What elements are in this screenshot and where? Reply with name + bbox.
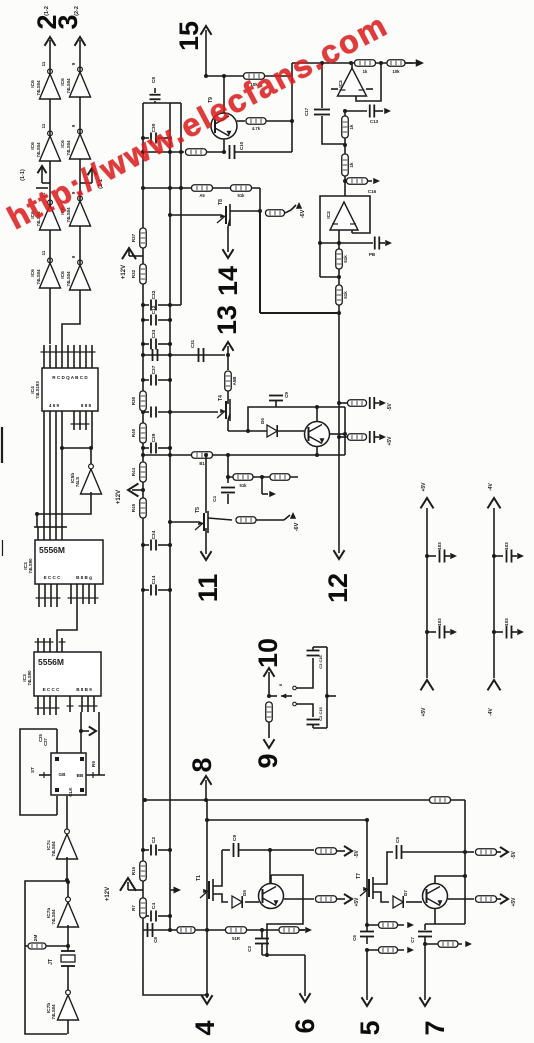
svg-text:R44: R44 (131, 467, 136, 476)
wire T7 feed (366, 820, 368, 925)
op-amp IC2b (330, 202, 358, 230)
svg-text:+5V: +5V (421, 707, 427, 717)
capacitor C25 (370, 431, 375, 443)
svg-text:R32: R32 (131, 269, 136, 278)
arrow +5V t7 (500, 894, 508, 904)
arrow 13 (223, 342, 234, 351)
junction rail (141, 318, 145, 322)
IC U1 bottom pin short (73, 411, 75, 430)
junction osc loop (66, 880, 70, 884)
wire r20 out (337, 898, 341, 900)
svg-text:C33: C33 (151, 329, 157, 338)
svg-text:5556M: 5556M (38, 657, 64, 667)
svg-text:4.7k: 4.7k (252, 126, 261, 131)
junction 944 (423, 942, 427, 946)
junction clk branch (79, 729, 83, 733)
wire collector res (237, 120, 245, 122)
wire rail stub b (512, 555, 517, 557)
resistor R15c (279, 927, 299, 934)
wire rail (426, 508, 428, 678)
wire row2 seg (79, 290, 81, 318)
wire loop 4 (143, 968, 207, 995)
wire line 111 (345, 110, 367, 112)
junction railA 355 (141, 353, 145, 357)
IC U1 top pin (91, 345, 93, 368)
rail A (142, 103, 144, 968)
pin tick (67, 705, 74, 707)
wire rail top bar (143, 102, 170, 104)
IC U3 top pin (37, 638, 39, 652)
wire box top (248, 407, 345, 431)
junction box 243 (318, 241, 322, 245)
resistor R13 (348, 400, 367, 407)
arrow 8 (201, 776, 212, 785)
IC U1 top pin (61, 345, 63, 368)
svg-text:1k: 1k (349, 124, 354, 130)
op-amp IC2a (338, 68, 367, 96)
arrow rail gnd (517, 553, 524, 559)
wire IC7b in (67, 1020, 69, 1034)
wire c3 b (261, 944, 263, 955)
svg-text:ST: ST (30, 767, 35, 773)
contact circle b (293, 702, 297, 706)
junction rail (168, 848, 172, 852)
inverter IC6 row1 #4 (40, 258, 61, 288)
resistor R28 (225, 371, 232, 391)
svg-text:B1: B1 (199, 461, 205, 466)
svg-text:C37: C37 (151, 365, 157, 374)
svg-text:+12V: +12V (105, 887, 111, 901)
capacitor C4 (143, 915, 149, 917)
wire line A (292, 62, 413, 64)
junction 477 (226, 475, 230, 479)
IC U3 top pin (49, 638, 51, 652)
IC U3 bottom pin (69, 696, 71, 712)
arrow gnd c18 (385, 240, 392, 246)
junction 15 (204, 74, 208, 78)
scan streak left (1, 427, 3, 463)
junction bus2 (205, 818, 209, 822)
svg-text:C3 C16: C3 C16 (318, 654, 323, 668)
junction 925 (365, 923, 369, 927)
wire 6 shaft (304, 955, 306, 990)
svg-text:8: 8 (187, 757, 217, 772)
IC U3 top pin (56, 638, 58, 652)
svg-text:74LS90: 74LS90 (28, 558, 33, 574)
junction rail (141, 914, 145, 918)
inverter IC6 row2 #3 (70, 196, 91, 226)
wire d5 out (245, 901, 259, 903)
resistor R42 (476, 896, 497, 903)
junction V3 top (343, 109, 347, 113)
resistor R32 (140, 264, 147, 284)
svg-text:C5: C5 (395, 837, 401, 843)
inverter IC7b (58, 990, 79, 1020)
svg-text:C27: C27 (43, 737, 48, 745)
junction V1 mid (290, 119, 294, 123)
junction rail (141, 446, 145, 450)
wire q2 top (270, 875, 272, 883)
svg-text:C10: C10 (239, 141, 244, 150)
junction rail (168, 303, 172, 307)
svg-text:11: 11 (41, 61, 46, 66)
resistor R11 (336, 249, 343, 269)
pin tick (53, 351, 60, 353)
wire r35 out (256, 519, 284, 521)
wire 4 shaft (206, 930, 208, 990)
arrow output 2 (45, 37, 56, 46)
wire 15 shaft (205, 40, 207, 76)
wire row2 seg (79, 159, 81, 201)
capacitor C10 (230, 145, 235, 159)
junction rail (141, 848, 145, 852)
capacitor C39 (143, 447, 149, 449)
svg-text:+12V: +12V (121, 265, 127, 279)
IC U1 top pin (43, 345, 45, 368)
wire x425 (424, 924, 426, 930)
svg-text:9: 9 (71, 255, 76, 258)
IC U1 top pin (73, 345, 75, 368)
transistor T8 (217, 204, 230, 226)
junction base t2 (268, 900, 272, 904)
capacitor C14 (143, 589, 149, 591)
wire T7 d (373, 852, 393, 884)
junction E (60, 446, 64, 450)
IC U3 body (34, 652, 101, 696)
junction bus1 8 (204, 798, 208, 802)
svg-text:IC2: IC2 (338, 80, 344, 88)
junction q3 top (315, 405, 319, 409)
arrow gnd 494 (269, 491, 276, 497)
junction rail (168, 588, 172, 592)
resistor R36 (379, 922, 398, 929)
IC U4 pad (80, 757, 84, 761)
svg-text:T5: T5 (195, 507, 201, 513)
pin tick (71, 351, 78, 353)
capacitor C6 (360, 932, 374, 937)
wire line B mid (207, 151, 226, 153)
junction rail (168, 543, 172, 547)
svg-text:74LS04: 74LS04 (51, 1004, 56, 1020)
svg-text:74LS193: 74LS193 (35, 381, 40, 399)
wire U4 bottom pin (66, 796, 68, 832)
resistor R44 (140, 462, 147, 482)
wire 9-10 stub (269, 695, 277, 697)
IC U4 pad (55, 788, 59, 792)
svg-text:9: 9 (71, 62, 76, 65)
wire line 944 (425, 943, 462, 945)
wire q3 bottom (316, 446, 318, 455)
arrow output 3 (75, 37, 86, 46)
junction x181 B (179, 150, 183, 154)
svg-text:C3: C3 (247, 946, 252, 952)
wire base (223, 76, 225, 113)
IC U2 bottom pin (94, 584, 96, 604)
wire line 930b (250, 929, 305, 931)
arrow 6 (300, 993, 311, 1002)
wire U2 to U3 (57, 584, 77, 638)
capacitor C12 (143, 319, 149, 321)
junction A2 (349, 61, 353, 65)
junction +12V mid2 (141, 488, 145, 492)
wire c13 out (375, 110, 383, 112)
wire T6 bottom (228, 414, 230, 420)
wire row2 seg (79, 226, 81, 265)
wire lineC down (259, 188, 261, 211)
wire row1 seg (49, 161, 51, 205)
pin tick (71, 423, 78, 425)
svg-text:74LS04: 74LS04 (51, 841, 56, 857)
junction t5 455 (204, 453, 208, 457)
junction xtal top (66, 944, 70, 948)
wire row2 output (79, 40, 81, 72)
resistor R35 (236, 517, 256, 524)
IC U4 pad (55, 757, 59, 761)
capacitor C34 (143, 544, 149, 546)
junction railA 455 (141, 453, 145, 457)
junction x181 (179, 186, 183, 190)
junction 850 (268, 848, 272, 852)
arrow 10 (264, 668, 275, 677)
svg-text:74LS90: 74LS90 (27, 670, 32, 686)
junction rail (168, 378, 172, 382)
arrow tap (1-1) (41, 168, 43, 183)
svg-text:PB: PB (369, 252, 376, 257)
wire T5 gate (170, 521, 198, 523)
arrow rail gnd (450, 629, 457, 635)
capacitor C32 (143, 304, 149, 306)
svg-text:1k: 1k (363, 69, 368, 74)
wire R osc left (25, 945, 28, 947)
wire cap line 850 (222, 849, 230, 851)
junction 477b (260, 475, 264, 479)
wire T1 s (213, 894, 228, 902)
wire xtal to IC7b (67, 966, 69, 991)
power arrow +12V mid2 (132, 489, 143, 491)
junction rail stub (492, 554, 496, 558)
svg-text:R9: R9 (91, 761, 96, 767)
wire q2 box (267, 875, 303, 955)
capacitor C18 (375, 237, 380, 250)
wire clk branch (81, 730, 89, 732)
junction 4 loop (205, 993, 209, 997)
pin tick (74, 597, 81, 599)
IC U1 top pin (49, 345, 51, 368)
IC U3 bottom pin (49, 696, 51, 715)
svg-text:C8: C8 (153, 937, 158, 943)
arrow output 15 (201, 26, 212, 35)
wire heavy down (259, 211, 261, 313)
transistor Q4 (423, 884, 448, 909)
wire r28 to T6 (227, 391, 229, 404)
bus tick (47, 526, 53, 528)
resistor R18b (266, 702, 273, 722)
diode D7 (393, 896, 403, 908)
junction A1 (320, 61, 324, 65)
svg-text:10k: 10k (393, 69, 401, 74)
svg-text:E C C C: E C C C (44, 575, 62, 580)
svg-text:10: 10 (253, 638, 283, 668)
svg-text:C8: C8 (151, 77, 157, 83)
svg-text:C12: C12 (151, 305, 157, 314)
svg-text:+12V: +12V (116, 490, 122, 504)
resistor R24 (186, 149, 207, 156)
resistor R14 (348, 434, 367, 441)
wire T5 down (205, 528, 207, 546)
arrow trim (281, 694, 286, 699)
wire bus link (206, 800, 208, 820)
power arrow top rail (488, 498, 501, 508)
wire line76 (206, 75, 292, 77)
arrow tap (2-1) (91, 170, 93, 183)
inverter IC6 row1 #2 (40, 131, 61, 161)
IC U3 bottom pin (55, 696, 57, 715)
pin tick (79, 705, 86, 707)
svg-text:51k: 51k (240, 483, 248, 488)
wire node E (62, 447, 92, 449)
inverter IC7c (57, 829, 78, 859)
capacitor C33 (418, 932, 432, 937)
wire d7 out (406, 901, 422, 903)
svg-text:C17: C17 (304, 107, 309, 116)
junction 950 (365, 948, 369, 952)
wire V3 gap3 (344, 176, 346, 196)
wire trim right (326, 647, 328, 728)
svg-text:R37: R37 (131, 233, 136, 242)
wire cap line 355 (143, 354, 225, 356)
resistor R15a (177, 927, 195, 934)
svg-text:-5V: -5V (387, 402, 393, 410)
wire q3 top (316, 407, 318, 421)
junction rail (168, 410, 172, 414)
resistor R26 (231, 185, 252, 192)
junction railA 152 (141, 150, 145, 154)
IC U1 bottom pins long (43, 411, 45, 527)
svg-text:R C D Q A B C D: R C D Q A B C D (52, 375, 88, 380)
resistor R34 (270, 474, 290, 481)
svg-text:(2-2: (2-2 (74, 6, 80, 16)
wire U4 right link (98, 712, 100, 775)
wire q4 out (448, 898, 474, 900)
arrow rail gnd (517, 629, 524, 635)
svg-text:2M: 2M (33, 935, 39, 942)
wire box right (344, 407, 346, 455)
resistor R17 (430, 797, 451, 804)
svg-text:74LS04: 74LS04 (66, 140, 71, 156)
wire V3 gap2 (344, 138, 346, 154)
svg-text:(1-1): (1-1) (20, 169, 26, 181)
arrow -6V t8 (291, 205, 296, 210)
arrow -5V 12a (379, 400, 386, 406)
wire U4 loop (20, 729, 57, 815)
svg-text:BB: BB (77, 773, 84, 778)
resistor R45 (140, 498, 147, 518)
wire oa1 tick left (331, 88, 338, 90)
wire trim out (327, 695, 336, 697)
IC U1 top pin (79, 345, 81, 368)
wire rail stub (427, 631, 436, 633)
wire bus1 corner (464, 800, 466, 924)
svg-text:D6: D6 (260, 418, 265, 424)
svg-text:C16: C16 (368, 189, 377, 194)
IC U3 bottom pin (81, 696, 83, 712)
junction railA 188 (141, 186, 145, 190)
wire diode line (228, 430, 304, 432)
transistor Q3 (305, 422, 330, 447)
wire stub2 link (339, 436, 348, 438)
wire stub1 link (339, 402, 348, 404)
svg-text:D7: D7 (403, 890, 408, 896)
svg-text:C4: C4 (212, 496, 217, 502)
junction t7 feed (365, 818, 369, 822)
svg-text:R45: R45 (131, 503, 136, 512)
wire rail stub (494, 631, 503, 633)
IC U3 top pin (43, 638, 45, 652)
svg-text:C34: C34 (151, 530, 157, 539)
svg-text:-6V: -6V (294, 522, 300, 531)
junction V3 low (343, 179, 347, 183)
resistor R41 (476, 849, 497, 856)
wire q2 out (284, 898, 314, 900)
pin tick (41, 641, 48, 643)
capacitor C37 (143, 379, 149, 381)
IC U3 top pin (61, 638, 63, 652)
capacitor C2 (143, 849, 149, 851)
wire IC7a out (67, 880, 69, 897)
arrow gnd 950 (407, 947, 414, 953)
wire T7 s (373, 892, 389, 902)
wire tap (1-1) (42, 182, 50, 184)
arrow gnd 944 (465, 941, 472, 947)
bus tick (35, 526, 41, 528)
svg-text:51k: 51k (343, 255, 348, 263)
svg-text:11: 11 (41, 123, 46, 128)
svg-text:7: 7 (420, 1020, 450, 1035)
IC U2 top pin (37, 527, 39, 540)
pin tick (59, 351, 66, 353)
svg-text:103: 103 (504, 542, 509, 550)
junction fb (337, 275, 341, 279)
wire v4 low (338, 313, 340, 545)
power arrow +12V osc (128, 889, 143, 891)
resistor R43 (438, 941, 458, 948)
pin tick (77, 351, 84, 353)
pin tick (42, 597, 49, 599)
arrow gnd c13 (384, 108, 391, 114)
wire buffer out (90, 448, 92, 467)
wire 9 shaft (268, 722, 270, 738)
resistor R15b (226, 927, 247, 934)
wire r9 out (368, 180, 372, 182)
wire c3 (261, 930, 263, 938)
junction rail (168, 318, 172, 322)
capacitor C15 (307, 720, 320, 725)
junction bus (35, 512, 39, 516)
wire q4 top (435, 876, 465, 883)
arrow rail gnd (450, 553, 457, 559)
wire row2 to IC1 (62, 318, 80, 345)
bus tick (41, 526, 47, 528)
wire U4 loop bottom leg (56, 796, 58, 815)
wire oa1 tick right (366, 88, 373, 90)
svg-text:103: 103 (437, 542, 442, 550)
pin tick (86, 597, 93, 599)
wire V3 stub (344, 111, 346, 118)
resistor R19 (316, 848, 337, 855)
svg-text:C13: C13 (370, 119, 379, 124)
capacitor C21 (221, 488, 235, 493)
capacitor C20 (269, 396, 283, 401)
